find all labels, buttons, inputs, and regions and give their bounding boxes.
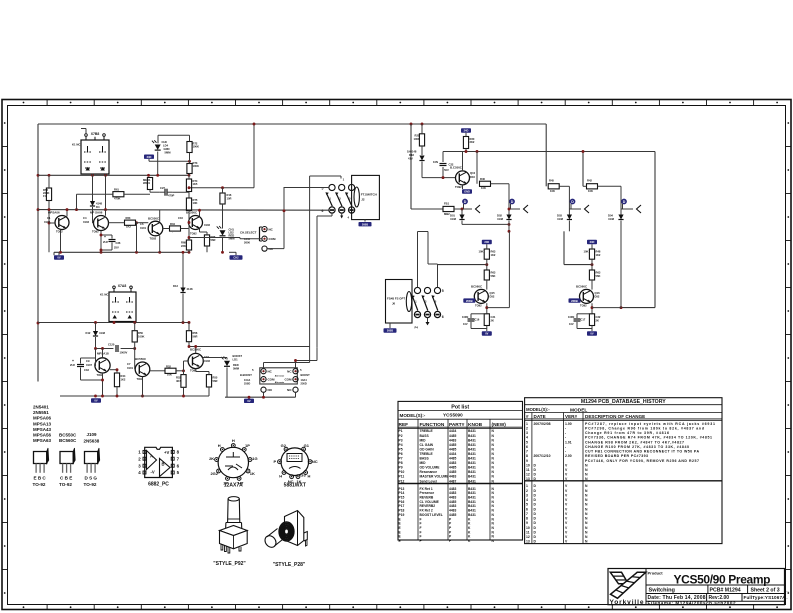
title block divider rev/type — [741, 594, 743, 602]
wire loop rect left feed — [438, 263, 489, 266]
wire Q7 collector up — [194, 345, 197, 353]
svg-text:C4: C4 — [83, 216, 87, 220]
wire Q2 collector emitter — [101, 210, 106, 253]
resistor R56 cellA — [484, 314, 496, 326]
wire FS2 jack stub — [389, 323, 391, 328]
svg-text:0107: 0107 — [86, 363, 92, 367]
svg-text:4: 4 — [526, 498, 528, 502]
svg-text:4148: 4148 — [96, 202, 102, 206]
wire riser x254 — [188, 123, 256, 190]
resistor R61 horizontal — [113, 192, 124, 197]
svg-text:1%: 1% — [43, 194, 47, 198]
svg-text:4485: 4485 — [449, 457, 457, 461]
TO-92 package drawing 1 labels — [33, 476, 47, 488]
svg-text:0102: 0102 — [204, 223, 210, 227]
wire chip CH2 stub — [229, 248, 236, 255]
wire cellA rc pair — [471, 314, 487, 331]
wire Q6 down to bus — [141, 377, 144, 398]
svg-text:-: - — [565, 445, 566, 449]
wire Q5 base — [95, 349, 97, 366]
svg-text:0V: 0V — [94, 399, 97, 403]
svg-text:0102: 0102 — [204, 359, 210, 363]
svg-text:4K7: 4K7 — [176, 379, 181, 383]
svg-text:M1294 PCB_DATABASE_HISTORY: M1294 PCB_DATABASE_HISTORY — [581, 399, 666, 405]
svg-text:G1: G1 — [304, 443, 310, 448]
svg-text:"STYLE_P28": "STYLE_P28" — [273, 562, 306, 568]
title block Filename — [648, 601, 736, 606]
svg-text:GND: GND — [464, 190, 470, 194]
svg-text:BC550C: BC550C — [135, 357, 147, 361]
junction dots bus B — [75, 208, 138, 224]
svg-text:CHANGE R100 FROM 27K, #4833 TO: CHANGE R100 FROM 27K, #4833 TO 33K, #484… — [585, 445, 689, 449]
svg-text:1P: 1P — [245, 443, 250, 448]
svg-text:10A4: 10A4 — [244, 378, 251, 382]
resistor R55 vertical — [206, 375, 218, 387]
net label chip 24D block1 — [144, 155, 154, 159]
svg-text:H: H — [218, 443, 221, 448]
wire cellB emitter node — [591, 303, 594, 314]
transistor Q1 labels — [44, 211, 63, 234]
svg-text:P7: P7 — [399, 457, 403, 461]
title block divider pcb/sheet — [747, 585, 749, 594]
transistor Q10 labels — [450, 166, 476, 190]
resistor R74 stack lower — [186, 179, 191, 192]
svg-text:C22: C22 — [596, 315, 601, 319]
svg-text:6: 6 — [526, 507, 528, 511]
tube V1 label X7B8 — [91, 132, 100, 136]
svg-text:-: - — [565, 436, 566, 440]
svg-text:260B: 260B — [362, 222, 368, 226]
svg-text:Alternate: Alternate — [275, 375, 285, 378]
svg-text:H: H — [279, 473, 282, 478]
capacitor C26 emitter — [103, 235, 116, 244]
svg-text:BC550C: BC550C — [186, 211, 198, 215]
svg-text:G3: G3 — [300, 473, 306, 478]
svg-text:2K: 2K — [596, 319, 599, 323]
LED CH2 labels — [229, 228, 236, 241]
svg-text:3: 3 — [526, 493, 528, 497]
resistor R74 labels — [193, 179, 198, 186]
svg-text:PC#7446, ONLY FOR YCS90, REMOV: PC#7446, ONLY FOR YCS90, REMOVE R256 AND… — [585, 459, 699, 463]
svg-text:5: 5 — [442, 289, 444, 293]
svg-text:BASS: BASS — [420, 434, 430, 438]
svg-text:MID: MID — [420, 461, 427, 465]
sheet inner border frame — [8, 106, 786, 605]
svg-text:100K: 100K — [193, 145, 199, 149]
wire chip 24D link — [149, 159, 191, 163]
svg-text:R44: R44 — [121, 374, 126, 378]
wire C22 top — [442, 152, 444, 163]
svg-text:TO92: TO92 — [92, 230, 99, 234]
svg-text:13: 13 — [526, 477, 530, 481]
bracket connector cell4 — [637, 205, 642, 213]
wire mid horizontal block2 — [94, 347, 136, 350]
wire cellB riser link — [592, 307, 621, 309]
resistor R58 label — [43, 188, 49, 198]
wire Q6 base — [134, 368, 137, 370]
svg-text:H: H — [307, 473, 310, 478]
svg-text:P12: P12 — [399, 479, 405, 483]
svg-text:P1: P1 — [399, 429, 403, 433]
resistor R44 vertical — [114, 373, 126, 387]
net label chip block2 bottom — [91, 398, 101, 402]
wire x583 drop to R42 — [582, 152, 584, 187]
svg-text:4485: 4485 — [449, 447, 457, 451]
svg-text:56R: 56R — [213, 379, 218, 383]
LED CH2 RED block1 — [217, 226, 226, 236]
capacitor C27 labels — [160, 186, 174, 198]
svg-text:7: 7 — [526, 450, 528, 454]
title block outline — [608, 569, 785, 605]
svg-text:Filename: M1294/200sch.sch2002: Filename: M1294/200sch.sch2002 — [648, 601, 736, 606]
svg-text:COM: COM — [269, 237, 277, 241]
svg-text:R50: R50 — [138, 331, 143, 335]
capacitor C18 electrolytic — [70, 359, 89, 372]
flag D cell2 — [510, 199, 515, 208]
pot list table grid — [398, 401, 523, 540]
svg-text:P: P — [273, 459, 276, 464]
flag D cell4 — [622, 199, 627, 208]
op-amp U 6882_PC package drawing — [138, 447, 179, 477]
wire cellB seg1 — [591, 244, 593, 270]
transistor Q3 BC550C — [148, 221, 163, 236]
svg-text:TO92: TO92 — [150, 237, 157, 241]
net label chip GND Q10 — [462, 189, 472, 193]
svg-text:TREBLE: TREBLE — [420, 429, 434, 433]
title block divider switching/pcb — [707, 585, 709, 594]
svg-text:470K: 470K — [114, 197, 120, 201]
net label chip cellA base — [463, 298, 475, 302]
svg-text:B431: B431 — [468, 434, 476, 438]
svg-text:TO-92: TO-92 — [59, 482, 72, 487]
wire x655 right vertical — [654, 152, 656, 308]
svg-text:1K5: 1K5 — [193, 182, 198, 186]
tube socket 5881WXT package drawing — [273, 443, 317, 484]
wire Q10 collector — [462, 152, 464, 171]
transistor Q16 BC560C cellB — [580, 289, 594, 303]
wire cell3 y209 — [569, 208, 581, 210]
svg-text:REVISED BOARD PER PC#7393: REVISED BOARD PER PC#7393 — [585, 454, 648, 458]
svg-text:N: N — [585, 463, 588, 467]
Yorkville logo text — [610, 599, 644, 606]
title block overflow marks — [786, 588, 789, 600]
svg-text:24D: 24D — [484, 240, 489, 244]
title block divider date/rev — [706, 594, 708, 602]
wire FS1 jack stub — [364, 220, 366, 222]
wire C18 stubs — [81, 358, 104, 381]
flag D cell1 — [463, 199, 468, 208]
svg-text:MPSA13: MPSA13 — [33, 421, 52, 426]
svg-text:470P: 470P — [168, 194, 174, 198]
connector J3 CH SELECT circles — [262, 227, 267, 252]
wire bus A y175 — [38, 174, 189, 176]
wire R67 link — [163, 228, 189, 230]
wire Q3 emitter — [159, 236, 161, 253]
svg-text:B431: B431 — [468, 443, 476, 447]
wire LED boost link — [203, 358, 227, 362]
svg-text:R63: R63 — [491, 271, 496, 275]
title block Sheet number — [751, 587, 780, 593]
transistor Q7 labels — [190, 348, 210, 373]
wire cell3 link — [559, 186, 569, 209]
resistor R53 vertical — [176, 375, 186, 388]
svg-text:A: A — [150, 454, 153, 459]
wire stack to Q4 base — [188, 211, 191, 241]
wire x411 vertical — [410, 124, 412, 209]
wire C27 left — [150, 190, 160, 193]
svg-text:B431: B431 — [468, 466, 476, 470]
svg-text:"STYLE_P92": "STYLE_P92" — [213, 561, 246, 567]
svg-text:P11: P11 — [399, 475, 405, 479]
svg-text:MPSA63: MPSA63 — [33, 438, 52, 443]
wire stack segment3 — [188, 175, 190, 198]
bracket connector cell2 — [524, 205, 529, 213]
capacitor C27 coupling — [160, 189, 172, 196]
svg-text:250D: 250D — [244, 382, 250, 386]
svg-text:FullType:YS1067A: FullType:YS1067A — [744, 595, 787, 600]
svg-text:B.BOOST: B.BOOST — [240, 373, 252, 377]
svg-text:MPSA43: MPSA43 — [33, 427, 52, 432]
svg-text:12AX7A: 12AX7A — [224, 483, 243, 489]
op-amp 6882_PC label — [148, 482, 169, 488]
svg-text:PC#7298, Change R96 from 180k: PC#7298, Change R96 from 180k to 82k, #4… — [585, 426, 704, 430]
net label chip cellA gnd — [482, 331, 492, 335]
transistor type list column 2 — [59, 432, 77, 443]
diode D13 labels — [173, 284, 193, 291]
resistor FB1 — [443, 202, 454, 217]
net label chip cellB base — [569, 298, 581, 302]
diode D04 labels — [608, 214, 614, 221]
wire cellA riser link — [487, 231, 510, 307]
svg-text:4: 4 — [526, 436, 528, 440]
tube V2 pin label — [100, 293, 108, 297]
svg-text:CH.SELECT: CH.SELECT — [240, 231, 257, 235]
svg-text:11: 11 — [526, 468, 530, 472]
svg-text:6: 6 — [442, 315, 444, 319]
svg-text:C17: C17 — [581, 318, 586, 322]
svg-text:R52: R52 — [166, 364, 171, 368]
svg-text:10N: 10N — [433, 160, 438, 164]
wire chip 0V stub — [54, 252, 59, 255]
svg-text:REF: REF — [399, 422, 409, 428]
svg-text:NO: NO — [268, 388, 273, 392]
wire R52 to Q7 — [176, 361, 188, 372]
TO-92 package drawing 3 — [85, 448, 100, 473]
title block file type — [744, 595, 787, 600]
svg-text:100N: 100N — [568, 315, 574, 319]
svg-text:1.01: 1.01 — [565, 440, 572, 444]
TO-92 package drawing 2 labels — [59, 476, 72, 488]
svg-text:C120: C120 — [108, 343, 115, 347]
svg-text:4434: 4434 — [449, 452, 457, 456]
pot list table title — [451, 404, 469, 410]
diode D4 labels — [96, 202, 102, 210]
wire Q3 collector — [159, 210, 161, 222]
svg-text:Q16: Q16 — [595, 291, 601, 295]
wire FS1 left pin5 — [284, 187, 329, 189]
svg-text:D18: D18 — [409, 153, 414, 157]
svg-text:4148: 4148 — [187, 287, 193, 291]
svg-text:BC560C: BC560C — [59, 438, 77, 443]
wire C27 to stack — [172, 191, 189, 193]
svg-text:R63: R63 — [596, 271, 601, 275]
diode D02 labels — [497, 214, 503, 221]
svg-text:PC#7336, CHANGE R74 FROM 47K,: PC#7336, CHANGE R74 FROM 47K, #4834 TO 1… — [585, 436, 712, 440]
svg-text:PC#7287, replace input eyelets: PC#7287, replace input eyelets with RCA … — [585, 422, 715, 426]
TO-92 package drawing 1 — [34, 448, 49, 473]
svg-text:X7B8: X7B8 — [91, 132, 100, 136]
svg-text:W201: W201 — [143, 181, 151, 185]
wire cell2 feed — [476, 152, 478, 184]
wire Q1 collector up — [66, 208, 69, 216]
wire cell1 y209 run — [411, 208, 443, 210]
wire R61 left right — [77, 194, 151, 209]
svg-text:R45: R45 — [549, 179, 554, 183]
wire LED CH2 down — [221, 237, 224, 254]
svg-text:MASTER VOLUME: MASTER VOLUME — [420, 475, 450, 479]
svg-text:4485: 4485 — [449, 470, 457, 474]
svg-text:10K: 10K — [193, 201, 198, 205]
svg-text:10K: 10K — [550, 189, 555, 193]
svg-text:-: - — [565, 426, 566, 430]
transistor Q1 MPSA06 — [55, 216, 69, 230]
transistor Q6 labels — [127, 357, 147, 381]
wire FS2 bottom stub — [426, 318, 430, 326]
svg-text:MID: MID — [420, 438, 427, 442]
svg-text:2.00: 2.00 — [565, 454, 572, 458]
svg-text:F: F — [420, 539, 422, 543]
footswitch J2 pin4 arrow — [340, 213, 343, 218]
svg-text:NO: NO — [287, 388, 292, 392]
wire cellB rc pair — [577, 314, 592, 331]
svg-text:2600: 2600 — [244, 240, 250, 244]
svg-text:J2: J2 — [361, 198, 365, 202]
svg-text:Yorkville: Yorkville — [610, 599, 644, 606]
svg-text:Q15: Q15 — [490, 291, 496, 295]
resistor R75 labels — [193, 198, 198, 205]
svg-text:D52: D52 — [490, 295, 495, 299]
svg-text:0101: 0101 — [140, 226, 146, 230]
svg-text:9: 9 — [526, 521, 528, 525]
wire second horizontal run y151.5 — [443, 151, 655, 153]
svg-text:25V: 25V — [114, 246, 119, 250]
svg-text:24D: 24D — [147, 155, 152, 159]
resistor R66b cellB — [589, 270, 601, 280]
svg-text:BOOST: BOOST — [301, 373, 311, 377]
wire cellA seg1 — [486, 244, 488, 270]
wire cellA seg2 — [486, 280, 488, 290]
title block logo cell divider — [645, 569, 647, 605]
connector J3 text CH SELECT — [240, 231, 257, 245]
connector J3 pin labels — [269, 228, 277, 252]
tube V2 label — [118, 284, 127, 288]
wire R42 left stub — [583, 185, 587, 187]
svg-text:2G2: 2G2 — [210, 471, 218, 476]
diode D03 — [567, 209, 572, 231]
resistor R72 labels — [193, 142, 199, 149]
svg-text:2K: 2K — [209, 456, 214, 461]
resistor R75 stack bottom — [186, 198, 191, 211]
potentiometer STYLE_P92 drawing — [220, 497, 248, 553]
svg-text:6882_PC: 6882_PC — [148, 482, 169, 488]
svg-text:TO92: TO92 — [455, 185, 462, 189]
resistor R52 h — [165, 364, 176, 376]
svg-text:+V: +V — [164, 450, 169, 455]
svg-text:PART#: PART# — [449, 422, 465, 428]
svg-text:(NEW): (NEW) — [492, 422, 507, 428]
resistor R73 stack mid — [187, 164, 192, 174]
title block row line under date row — [646, 600, 785, 602]
svg-text:RED: RED — [233, 363, 239, 367]
junction dots bottom block2 — [94, 395, 185, 398]
net label chip 24D cellB — [587, 240, 597, 244]
svg-text:...: ... — [786, 588, 789, 592]
pot list column headers — [399, 422, 507, 428]
svg-text:0V: 0V — [57, 256, 60, 260]
net label chip 24D cellA — [482, 240, 492, 244]
svg-text:TREBLE: TREBLE — [420, 452, 434, 456]
svg-text:Change R91 from 47R to 39R, #4: Change R91 from 47R to 39R, #4816 — [585, 431, 669, 435]
database history table grid — [525, 398, 722, 544]
svg-text:R61: R61 — [114, 188, 119, 192]
transistor Q2 MPSA06 — [94, 216, 109, 231]
svg-text:#: # — [526, 414, 529, 419]
wire FS1 pin1 top — [310, 176, 341, 179]
boost switch side labels left — [240, 368, 254, 386]
svg-text:4483: 4483 — [449, 475, 457, 479]
capacitor C120 labels — [108, 343, 127, 355]
svg-text:41V: 41V — [408, 157, 413, 161]
svg-text:56R: 56R — [193, 335, 198, 339]
svg-text:1K2: 1K2 — [126, 225, 131, 229]
wire boost top right — [294, 347, 317, 368]
svg-text:OD VOLUME: OD VOLUME — [420, 466, 441, 470]
svg-text:DESCRIPTION OF CHANGE: DESCRIPTION OF CHANGE — [585, 414, 645, 419]
wire LED rail — [158, 135, 190, 143]
wire R58 stubs — [48, 175, 56, 252]
svg-text:P9: P9 — [399, 466, 403, 470]
svg-text:LD4: LD4 — [163, 144, 169, 148]
svg-text:-: - — [565, 431, 566, 435]
svg-text:Product: Product — [648, 571, 664, 576]
transistor Q5 labels — [86, 352, 109, 378]
connector J3 bracket — [260, 227, 262, 241]
flag D cell3 — [570, 199, 575, 208]
svg-text:C27: C27 — [160, 186, 165, 190]
wire R56 stubs — [188, 323, 191, 348]
wire Q10 emitter — [462, 185, 464, 189]
svg-text:10K: 10K — [584, 250, 589, 254]
svg-text:12: 12 — [526, 473, 530, 477]
wire cell4 link — [598, 186, 622, 209]
wire bus B y209.6 — [38, 209, 328, 212]
svg-text:8: 8 — [526, 454, 528, 458]
net label chip FS2 — [384, 328, 397, 332]
potentiometer STYLE_P28 label — [273, 562, 306, 568]
tube socket 12AX7A label — [224, 483, 243, 489]
svg-text:10: 10 — [526, 526, 530, 530]
resistor R65 cellB — [584, 249, 601, 259]
LED CH1 LD4 GRN — [152, 140, 161, 150]
wire Q4 emitter net — [200, 229, 208, 253]
title block PCB number — [710, 587, 741, 593]
capacitor C22 — [433, 160, 454, 172]
wire bus C y252.3 — [54, 251, 189, 253]
svg-text:2: 2 — [526, 426, 528, 430]
svg-text:1N4148: 1N4148 — [407, 150, 417, 154]
wire bus block2 y322.5 — [38, 322, 189, 324]
bracket connector cell1 — [476, 205, 481, 213]
